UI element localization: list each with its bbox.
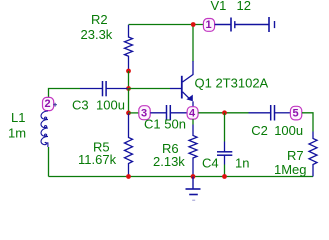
node 1 bubble	[203, 19, 214, 32]
resistor R6	[192, 119, 194, 124]
junction dot R6 bottom	[191, 174, 196, 179]
svg-text:4: 4	[189, 107, 196, 119]
junction dot C4 bottom	[222, 174, 227, 179]
svg-text:2: 2	[45, 98, 51, 110]
svg-text:1n: 1n	[235, 156, 249, 171]
node dot R2 bottom	[126, 69, 131, 74]
capacitor C3	[80, 81, 128, 96]
ground	[186, 177, 201, 201]
battery V1	[215, 17, 275, 32]
svg-text:1Meg: 1Meg	[274, 162, 307, 177]
inductor L1	[41, 111, 48, 147]
transistor Q1	[170, 61, 193, 107]
svg-text:V1: V1	[211, 0, 227, 13]
wire collector vertical	[192, 25, 194, 62]
resistor R7	[309, 132, 317, 177]
junction dot node3 row	[126, 111, 131, 116]
svg-text:L1: L1	[11, 110, 25, 125]
node 4 bubble	[187, 107, 198, 120]
emitter arrow	[186, 95, 192, 102]
svg-text:C2: C2	[251, 123, 268, 138]
svg-text:R7: R7	[287, 148, 304, 163]
svg-text:11.67k: 11.67k	[78, 152, 117, 167]
plus polarity L1	[53, 103, 57, 107]
resistor R2	[125, 25, 133, 71]
svg-text:100u: 100u	[96, 98, 125, 113]
svg-text:100u: 100u	[274, 123, 303, 138]
resistor R5	[125, 114, 133, 177]
svg-text:2.13k: 2.13k	[153, 154, 185, 169]
wire C3 row left	[49, 89, 81, 98]
svg-text:1: 1	[205, 19, 211, 31]
wire base	[129, 88, 171, 90]
wire mid column	[128, 89, 130, 113]
junction dot R5 bottom	[126, 174, 131, 179]
junction dot top rail	[191, 22, 196, 27]
node 5 bubble	[290, 106, 301, 120]
wire R2 bottom to base junction	[128, 71, 130, 89]
wire L1 bottom	[48, 147, 50, 177]
svg-text:C4: C4	[202, 156, 219, 171]
wire node5 to R7	[302, 113, 313, 132]
capacitor C1	[150, 105, 187, 120]
capacitor C2	[249, 105, 291, 121]
node 3 bubble	[139, 106, 150, 120]
junction dot C4 top	[222, 110, 227, 115]
node 2 bubble	[43, 97, 54, 110]
wire top rail	[129, 24, 204, 26]
svg-text:5: 5	[293, 108, 299, 120]
svg-text:12: 12	[237, 0, 251, 13]
wire bottom rail	[49, 176, 314, 178]
junction dot base/C3	[126, 86, 131, 91]
svg-text:23.3k: 23.3k	[81, 27, 113, 42]
wire node4 to C2	[198, 112, 248, 114]
svg-text:1m: 1m	[8, 126, 26, 141]
capacitor C4	[224, 113, 226, 142]
svg-text:Q1 2T3102A: Q1 2T3102A	[195, 76, 269, 91]
svg-text:R2: R2	[91, 12, 108, 27]
svg-text:C3: C3	[72, 98, 89, 113]
svg-text:C1 50n: C1 50n	[144, 117, 186, 132]
wire to node 3	[129, 112, 139, 114]
